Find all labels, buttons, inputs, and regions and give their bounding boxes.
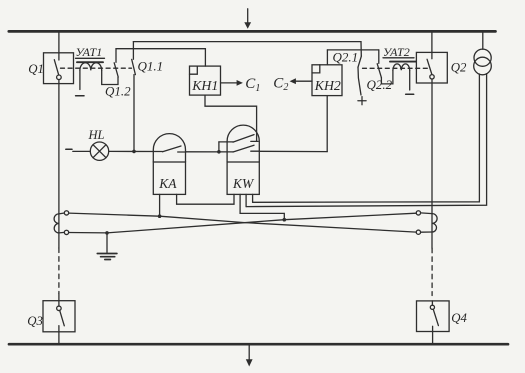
wire: diagonal ground to right CT upper: [107, 213, 416, 233]
svg-text:Q3: Q3: [27, 314, 43, 328]
wire: KH1 top leg: [204, 49, 206, 66]
arrow to C1: [221, 80, 243, 86]
wire: node of Q1.2/KH1 tops: [116, 48, 205, 50]
contact KW upper: [219, 135, 258, 152]
contact KA: [163, 146, 187, 152]
node: junction on ground diagonal: [283, 218, 287, 222]
plus terminal: [358, 97, 366, 105]
wire: Q1.1 bottom to lamp rail: [133, 75, 135, 152]
wire: KW leg D: [252, 194, 254, 202]
wire: KH2 bottom leg: [326, 96, 328, 152]
wire: T secondary lead outer: [246, 74, 487, 207]
wire: right feeder dashed section: [431, 248, 433, 295]
wire: top bus to Q2: [431, 33, 433, 53]
coil VAT1: [77, 62, 103, 89]
contact KW lower: [233, 145, 259, 152]
dashed mechanical link Q1: [61, 67, 132, 69]
contact Q2.1: [358, 42, 361, 68]
wire: Q4 to bottom bus: [432, 326, 434, 344]
wire: T secondary lead inner: [253, 74, 480, 202]
contact Q1.2: [114, 49, 118, 77]
arrow to C2: [290, 78, 312, 84]
top supply arrow: [244, 9, 251, 29]
label C1: [245, 76, 260, 94]
label VAT2: [383, 45, 414, 59]
wire: left feeder dashed section: [58, 248, 60, 294]
wire: Q2.1 bottom to plus: [358, 67, 361, 95]
contact Q2.2: [377, 50, 381, 78]
breaker Q1: [44, 53, 74, 84]
relay KW: [227, 125, 259, 194]
wire: right feeder Q2 down to CT: [431, 83, 433, 248]
wire: KA left leg: [159, 194, 161, 216]
svg-text:KW: KW: [232, 176, 255, 191]
wire: control bus Q1.1 to Q2.1: [133, 41, 361, 43]
node: junction on lamp rail: [132, 150, 136, 154]
svg-text:Q1.2: Q1.2: [105, 84, 131, 99]
svg-text:KA: KA: [158, 176, 177, 191]
node: ground junction: [105, 231, 109, 235]
ground: [97, 233, 117, 260]
wire: Q2.2 to VAT2 coil: [381, 70, 393, 84]
lamp HL: [90, 142, 108, 160]
breaker Q4: [417, 301, 450, 332]
wire: left feeder Q1 down to CT: [58, 84, 60, 248]
node: junction at KW left: [217, 150, 221, 154]
bottom supply arrow: [246, 346, 253, 367]
breaker Q2: [416, 52, 447, 83]
minus terminal VAT2: [406, 93, 414, 95]
svg-text:1: 1: [255, 83, 260, 94]
wire: KH2 top leg: [326, 50, 328, 65]
current transformer left: [54, 211, 69, 235]
contact Q1.1: [132, 42, 136, 75]
transformer T at top right: [474, 33, 492, 75]
breaker Q3: [43, 301, 75, 332]
minus terminal VAT1: [76, 95, 84, 97]
dashed mechanical link Q2: [363, 67, 428, 69]
wire: KA right leg to KW leg A: [177, 194, 234, 204]
relay KA: [153, 134, 185, 195]
label C2: [273, 76, 288, 94]
wire: left CT lower to ground node: [69, 232, 107, 234]
wire: lamp to KA contact: [109, 150, 163, 152]
svg-text:КН2: КН2: [314, 78, 341, 93]
node: KA left leg junction: [158, 214, 162, 218]
svg-text:Q1.1: Q1.1: [138, 59, 164, 74]
label VAT1: [76, 45, 105, 59]
lamp minus terminal: [66, 148, 72, 150]
current transformer right: [416, 211, 437, 235]
wire: stub above Q3: [58, 294, 60, 301]
wire: Q3 to bottom bus: [58, 326, 60, 344]
wire: diagonal KA-leg to right CT lower: [160, 216, 417, 232]
wire: KW leg C: [245, 194, 247, 206]
svg-text:Q1: Q1: [28, 62, 44, 76]
svg-text:Q2: Q2: [451, 60, 467, 74]
coil VAT2: [390, 62, 416, 90]
svg-text:УАТ1: УАТ1: [76, 45, 103, 59]
svg-text:2: 2: [283, 82, 288, 93]
wire: KW lower contact to KH2 leg: [259, 150, 327, 152]
wire: minus to lamp: [73, 150, 91, 152]
wire: top bus to Q1: [58, 33, 60, 53]
wire: KW leg B to junction: [240, 194, 284, 219]
wire: KA to KW rail: [186, 151, 234, 153]
svg-text:Q4: Q4: [451, 311, 467, 325]
svg-text:УАТ2: УАТ2: [383, 45, 410, 59]
wire: VAT1 coil to Q1.2 contact: [102, 70, 118, 84]
svg-text:HL: HL: [88, 128, 105, 142]
svg-text:КН1: КН1: [191, 78, 218, 93]
top busbar: [9, 30, 496, 33]
wire: left CT upper to KA leg: [69, 213, 160, 216]
bottom busbar: [9, 343, 508, 346]
wire: KH1 bottom to KW upper contact: [205, 95, 257, 141]
relay KH2: [312, 65, 342, 96]
svg-text:Q2.1: Q2.1: [333, 50, 359, 65]
relay KH1: [190, 66, 221, 95]
wire: node of Q2.2/KH2 tops: [327, 49, 378, 51]
